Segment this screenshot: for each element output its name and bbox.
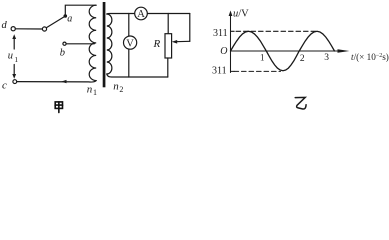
svg-text:n: n <box>113 81 119 93</box>
terminal c <box>13 80 17 84</box>
terminal d <box>11 27 15 31</box>
svg-text:A: A <box>137 9 145 20</box>
bottom wire c to primary <box>17 81 96 82</box>
svg-text:311: 311 <box>213 28 228 39</box>
voltmeter branch wire <box>128 14 130 78</box>
svg-text:d: d <box>2 20 8 31</box>
secondary coil n2 <box>107 14 112 74</box>
u1 arrow up <box>13 38 15 50</box>
svg-text:u: u <box>8 51 13 62</box>
svg-text:R: R <box>153 38 161 50</box>
right vertical wire <box>189 14 191 42</box>
rheostat wiper arrow <box>176 40 190 42</box>
wire top to rheostat <box>167 14 169 34</box>
dashed line +311 <box>236 30 316 32</box>
svg-text:b: b <box>60 47 65 58</box>
node b <box>63 42 66 45</box>
wire a to primary top <box>65 5 96 14</box>
y axis <box>230 14 232 73</box>
label yi (乙) <box>295 97 306 109</box>
svg-text:u/V: u/V <box>233 9 249 20</box>
u1 arrow down <box>13 65 15 76</box>
tick +311 <box>231 30 235 32</box>
svg-text:V: V <box>126 38 134 49</box>
switch blade <box>46 17 64 28</box>
svg-text:311: 311 <box>212 66 227 77</box>
svg-text:2: 2 <box>119 85 123 94</box>
svg-text:1: 1 <box>93 88 97 97</box>
tick -311 <box>231 70 235 72</box>
x axis <box>231 50 344 52</box>
svg-text:1: 1 <box>14 55 18 64</box>
secondary bottom wire <box>107 74 168 77</box>
switch pivot <box>42 27 46 31</box>
transformer core <box>103 2 106 87</box>
svg-text:3: 3 <box>324 53 329 63</box>
rheostat R box <box>165 34 172 58</box>
wire rheostat bottom <box>167 58 169 77</box>
label jia (甲) <box>55 102 62 113</box>
node a <box>64 14 68 18</box>
current arrow on bottom wire <box>61 80 67 83</box>
dashed line -311 <box>234 70 281 72</box>
svg-text:O: O <box>220 46 227 57</box>
wire b to primary tap <box>66 43 94 45</box>
svg-text:1: 1 <box>260 52 265 62</box>
svg-text:t/(× 10−2s): t/(× 10−2s) <box>351 52 389 62</box>
sine curve <box>231 31 335 70</box>
svg-text:c: c <box>2 80 7 92</box>
svg-text:n: n <box>87 84 93 96</box>
svg-text:a: a <box>67 13 72 24</box>
svg-text:2: 2 <box>300 54 305 64</box>
secondary top wire <box>107 13 190 16</box>
voltmeter V1 <box>124 36 137 49</box>
wire d to switch pivot <box>15 28 42 30</box>
ammeter A1 <box>135 7 148 20</box>
primary coil n1 <box>89 5 96 80</box>
